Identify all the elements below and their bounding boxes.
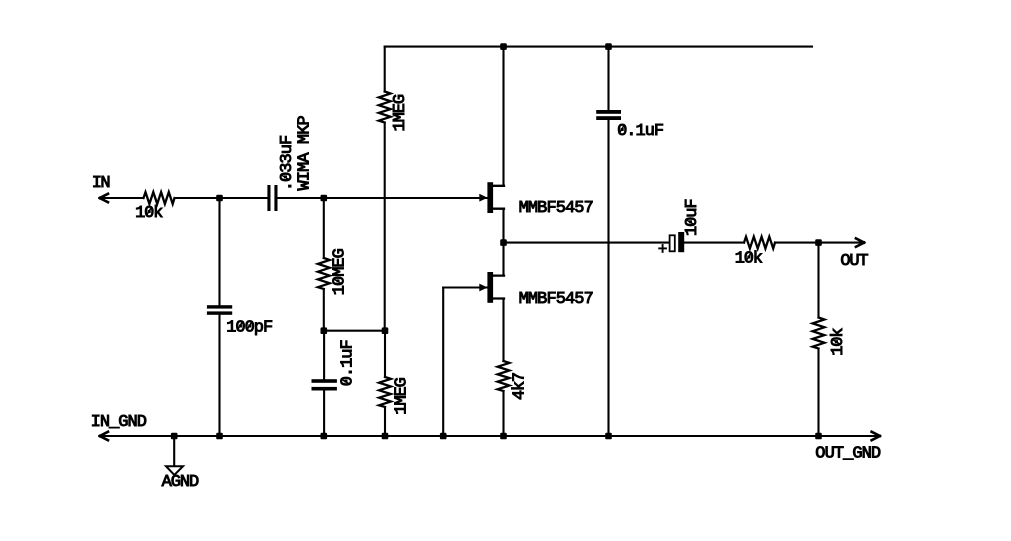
svg-text:1MEG: 1MEG <box>392 377 411 415</box>
svg-text:10k: 10k <box>735 250 763 269</box>
svg-text:1MEG: 1MEG <box>391 94 410 132</box>
svg-text:OUT: OUT <box>840 252 868 271</box>
svg-text:.033uF: .033uF <box>278 135 297 191</box>
svg-text:10MEG: 10MEG <box>331 248 350 295</box>
svg-text:AGND: AGND <box>162 473 200 492</box>
svg-text:10k: 10k <box>135 204 163 223</box>
svg-text:10uF: 10uF <box>683 198 702 236</box>
svg-text:10k: 10k <box>829 328 848 356</box>
svg-text:4k7: 4k7 <box>511 372 530 400</box>
svg-text:MMBF5457: MMBF5457 <box>519 199 594 218</box>
svg-text:IN: IN <box>92 174 111 193</box>
svg-text:IN_GND: IN_GND <box>91 413 147 432</box>
svg-text:100pF: 100pF <box>226 318 273 337</box>
svg-text:OUT_GND: OUT_GND <box>815 444 881 463</box>
svg-text:WIMA MKP: WIMA MKP <box>296 115 315 190</box>
svg-text:MMBF5457: MMBF5457 <box>519 290 594 309</box>
